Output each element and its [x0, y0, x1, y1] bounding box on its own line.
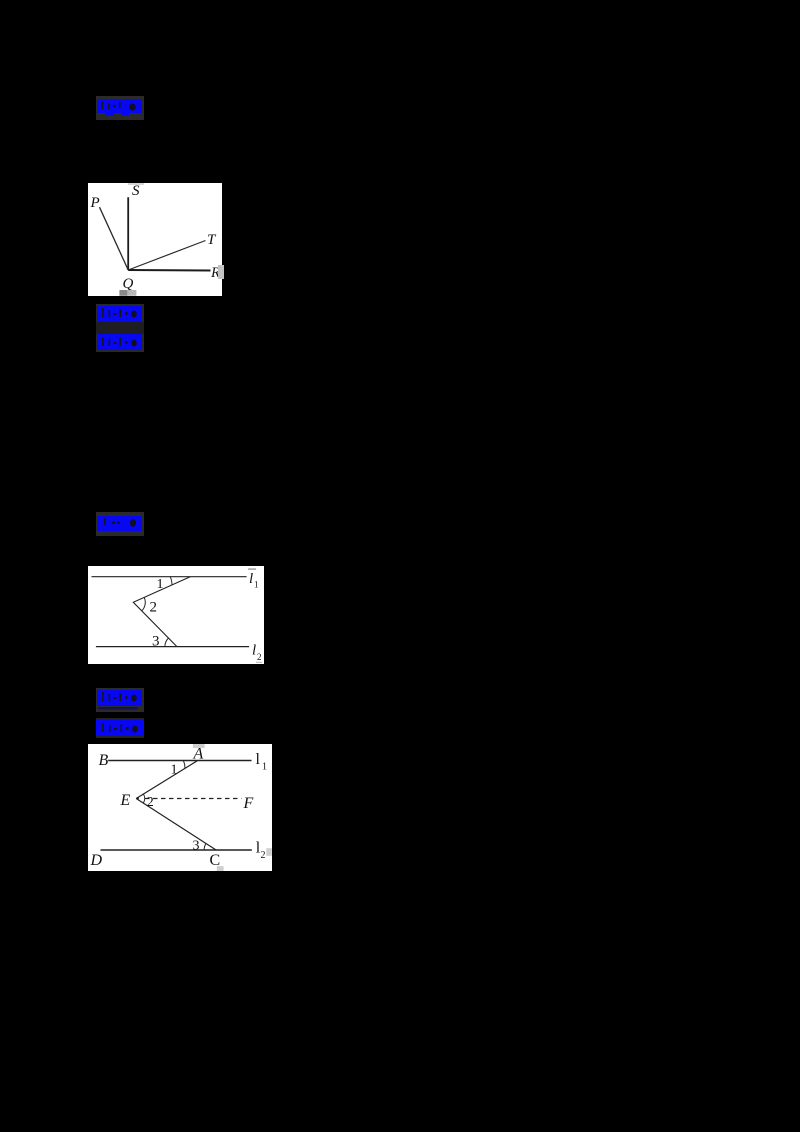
diagram 1 : rays QP,QS,QT,QR: [88, 183, 222, 296]
smudge above A: [193, 744, 205, 748]
svg-text:1: 1: [157, 577, 164, 592]
svg-text:1: 1: [262, 761, 267, 772]
ray QT: [128, 241, 205, 271]
svg-text:3: 3: [193, 839, 200, 854]
svg-text:E: E: [120, 792, 131, 809]
svg-text:2: 2: [261, 850, 266, 861]
smudge above S: [128, 183, 144, 185]
segment E-C: [136, 799, 216, 851]
svg-text:l: l: [252, 643, 256, 659]
svg-text:F: F: [243, 795, 254, 812]
label block 2+3 (two blue tags stacked): [96, 304, 144, 352]
svg-text:S: S: [132, 183, 140, 199]
diagram 2 : parallel lines l1 l2 with zigzag, angles 1,2,3: [88, 566, 264, 664]
smudge right of l2 label: [266, 848, 272, 856]
dashed ray EF: [145, 798, 241, 800]
smudge below C: [217, 866, 224, 871]
svg-text:2: 2: [147, 795, 154, 810]
arc angle2 at E: [143, 794, 144, 803]
smudge below Q: [119, 290, 127, 296]
arc angle1: [170, 577, 172, 585]
arc angle1 at A: [183, 761, 185, 769]
svg-text:1: 1: [171, 763, 178, 778]
svg-text:1: 1: [254, 580, 259, 590]
svg-text:l: l: [256, 751, 261, 768]
ray QR: [128, 269, 210, 272]
zigzag wire: [133, 577, 190, 647]
ray QS: [127, 197, 129, 270]
svg-text:l: l: [249, 571, 253, 587]
ray QP: [100, 207, 129, 270]
line l2: [96, 646, 249, 648]
label block 4: [96, 512, 144, 536]
line l1: [92, 576, 247, 578]
arc angle3 at C: [204, 844, 206, 851]
overline artifact above l1 label: [248, 568, 256, 569]
svg-text:D: D: [90, 852, 103, 869]
arc angle2: [142, 597, 146, 611]
label block 5: [96, 688, 144, 712]
vertex dot at E: [137, 797, 139, 799]
smudge right of R (overlaps box edge): [218, 265, 224, 279]
line l2 (D to right): [101, 849, 252, 851]
arc angle3: [165, 638, 169, 647]
svg-text:A: A: [193, 746, 204, 763]
svg-text:Q: Q: [123, 276, 134, 292]
label block 1 (blue highlighted tag): [96, 96, 144, 120]
underline artifact below l2 label: [256, 662, 262, 663]
svg-text:P: P: [90, 195, 100, 211]
svg-text:B: B: [99, 752, 109, 769]
label block 6: [96, 718, 144, 738]
svg-text:2: 2: [150, 600, 158, 616]
line l1 (B to right): [108, 760, 251, 762]
svg-text:3: 3: [152, 633, 160, 649]
svg-text:2: 2: [257, 652, 262, 662]
segment A-E: [136, 761, 198, 799]
diagram 3 : parallel lines with points A,B,C,D,E,F and angles 1,2,3: [88, 744, 272, 871]
